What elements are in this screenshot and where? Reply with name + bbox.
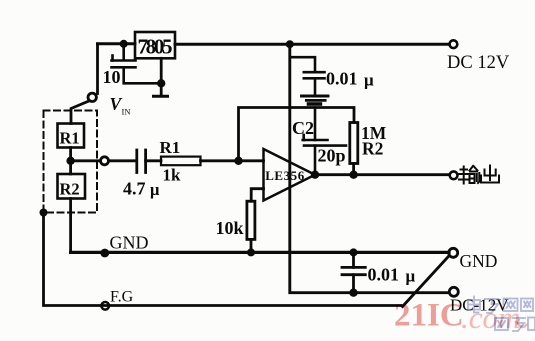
junction dot 1M output — [349, 171, 357, 179]
svg-text:4.7: 4.7 — [123, 179, 146, 199]
svg-text:R2: R2 — [362, 139, 383, 159]
connector circle signal — [101, 157, 109, 165]
svg-text:1k: 1k — [163, 166, 182, 185]
label output (shu chu) — [459, 166, 499, 184]
junction dot 7805 gnd — [157, 79, 165, 87]
junction dot dashed box corner — [40, 209, 48, 217]
wire 1M bottom to output — [352, 164, 355, 175]
svg-text:GND: GND — [460, 251, 498, 271]
wire cap to R1 — [146, 159, 161, 162]
label Vin — [110, 94, 131, 117]
wire F.G line — [44, 213, 401, 306]
junction dot 10k gnd — [247, 248, 255, 256]
svg-text:C2: C2 — [292, 118, 314, 138]
resistor R2 1M body — [350, 123, 358, 164]
svg-text:20p: 20p — [318, 146, 346, 166]
junction dot supply top — [286, 40, 294, 48]
svg-text:F.G: F.G — [110, 289, 134, 306]
wire output — [315, 173, 449, 176]
wire V supply vertical and -12V rail — [290, 44, 447, 293]
watermark blue characters — [468, 297, 535, 332]
op-amp U LE356 — [264, 149, 316, 201]
capacitor C 10u — [112, 44, 162, 84]
terminal circle GND right — [449, 248, 458, 257]
wire top +12V rail — [98, 42, 450, 45]
connector circle Vin — [88, 93, 96, 101]
svg-text:μ: μ — [406, 267, 416, 286]
resistor R2 (sensor) — [58, 174, 86, 199]
svg-text:R2: R2 — [60, 180, 80, 199]
capacitor 0.01u top — [290, 57, 325, 94]
capacitor 4.7u — [137, 150, 146, 173]
sensor dashed box — [44, 111, 98, 213]
svg-text:10k: 10k — [216, 218, 244, 238]
connector dot GND left — [100, 249, 109, 258]
svg-text:LE356: LE356 — [265, 168, 305, 183]
capacitor 0.01u bottom — [342, 252, 365, 292]
ground symbol top — [302, 96, 329, 104]
wire R1-R2 link — [69, 148, 72, 175]
wire 7805 ground pin — [160, 58, 163, 95]
svg-text:IN: IN — [122, 107, 131, 117]
svg-text:10: 10 — [103, 67, 121, 87]
wire R2 bottom to GND rail — [69, 199, 72, 253]
wire opamp noninverting input — [251, 189, 263, 202]
svg-text:0.01: 0.01 — [326, 69, 358, 89]
svg-text:0.01: 0.01 — [368, 265, 400, 285]
wire diagonal FG to GND — [403, 256, 449, 307]
svg-text:DC 12V: DC 12V — [447, 53, 510, 73]
wire R1 to opamp inverting input — [201, 159, 264, 162]
junction dot sensor mid — [66, 157, 74, 165]
svg-text:.com: .com — [461, 300, 520, 335]
junction dot -12V cap — [349, 289, 357, 297]
wire sensor signal out — [71, 159, 101, 162]
terminal circle DC 12V — [450, 40, 458, 48]
ground bar under 7805 — [154, 95, 168, 98]
junction dot output apex — [311, 171, 319, 179]
wire feedback up and across — [239, 108, 355, 161]
wire 10k bottom to GND rail — [250, 239, 253, 252]
svg-text:R1: R1 — [160, 138, 181, 157]
svg-text:7805: 7805 — [138, 35, 173, 59]
svg-text:R1: R1 — [60, 129, 80, 148]
resistor 10k body — [247, 201, 255, 239]
junction dot 0.01u gnd — [350, 248, 358, 256]
svg-text:GND: GND — [110, 233, 149, 253]
wire to coupling cap — [109, 159, 137, 162]
junction dot feedback tap — [234, 157, 242, 165]
watermark com tail — [516, 322, 526, 327]
svg-text:μ: μ — [150, 180, 160, 199]
svg-text:μ: μ — [364, 71, 374, 90]
wire GND rail — [71, 251, 449, 254]
regulator U 7805 — [135, 32, 175, 59]
junction dot cap 10u tap — [120, 40, 128, 48]
wire Vin drop to connector — [71, 44, 98, 124]
svg-text:21IC: 21IC — [394, 298, 464, 334]
terminal circle output — [450, 171, 458, 179]
connector circle FG — [101, 302, 109, 310]
resistor R1 (sensor) — [58, 124, 85, 148]
capacitor C2 20p — [303, 108, 346, 175]
terminal circle DC-12V — [449, 287, 458, 296]
resistor R1 1k body — [161, 157, 201, 166]
